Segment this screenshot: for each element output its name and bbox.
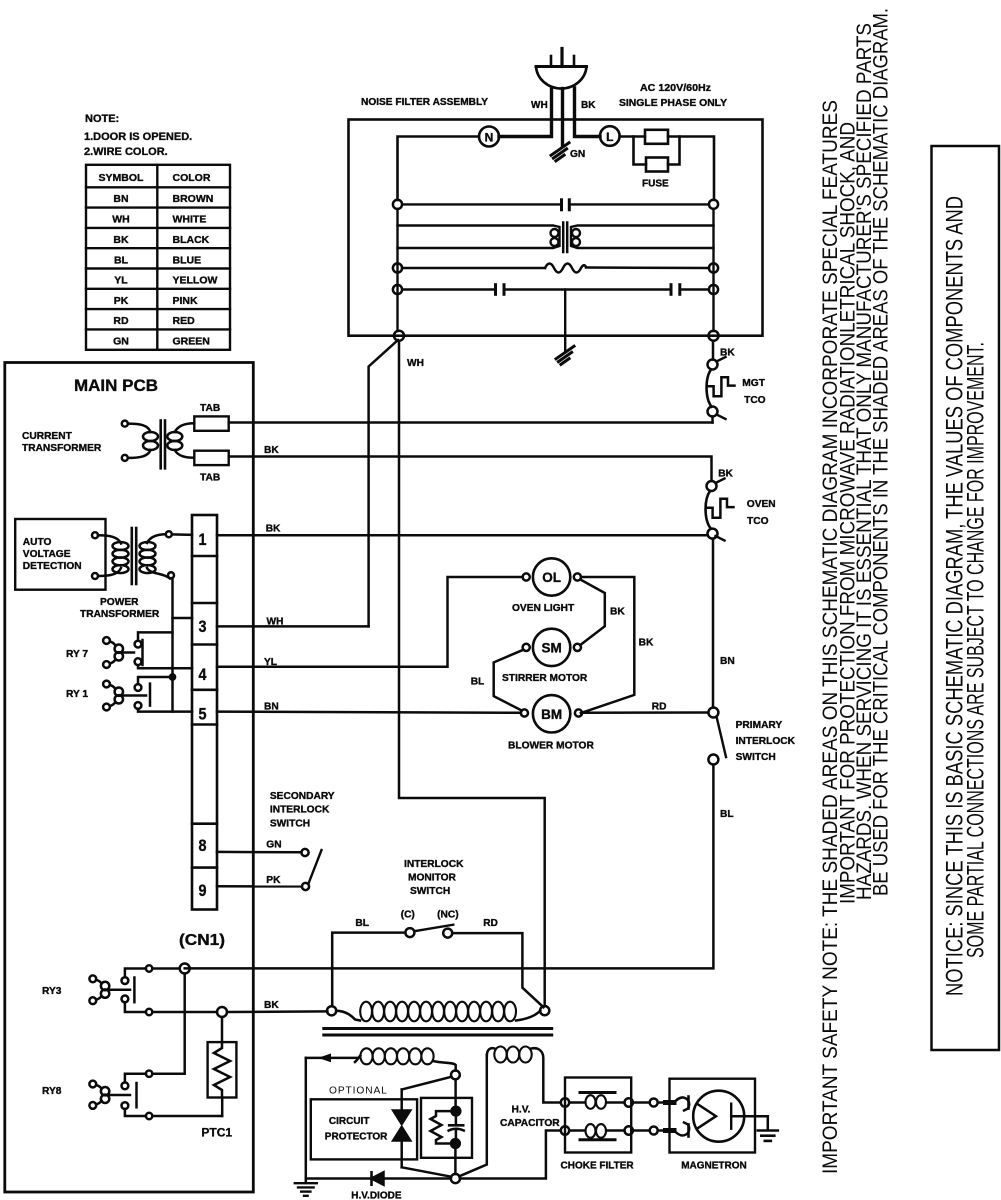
node choke bottom-right <box>625 1126 633 1134</box>
thermal cutout OVEN TCO <box>706 479 734 541</box>
svg-text:L: L <box>606 130 613 144</box>
node NF right row3 <box>709 263 718 272</box>
svg-text:(CN1): (CN1) <box>179 932 225 949</box>
ground GN hatched <box>551 143 569 161</box>
svg-text:BLOWER MOTOR: BLOWER MOTOR <box>508 741 594 752</box>
transformer T-current <box>122 421 195 469</box>
svg-text:TCO: TCO <box>747 516 769 527</box>
node A secondary to protector <box>451 1071 460 1080</box>
motor OL oven light <box>523 558 581 595</box>
arrow on secondary lead <box>318 1054 331 1063</box>
svg-text:VOLTAGE: VOLTAGE <box>23 549 71 560</box>
svg-text:3: 3 <box>199 617 207 636</box>
inductor filament winding 3 loops <box>494 1047 531 1063</box>
svg-text:BK: BK <box>266 524 281 535</box>
label PRIMARY INTERLOCK SWITCH <box>736 720 796 763</box>
switch monitor blade <box>414 925 453 932</box>
capacitor C-row4-left <box>402 285 669 295</box>
wire node A down to RC <box>454 1079 457 1107</box>
label SECONDARY INTERLOCK SWITCH <box>270 791 335 830</box>
box AUTO VOLTAGE DETECTION <box>15 519 105 590</box>
node HV primary left <box>327 1006 336 1015</box>
MAIN PCB box <box>5 363 254 1193</box>
inductor choke top <box>569 1093 624 1109</box>
wire pin5 row BN to blower <box>217 712 521 713</box>
label H.V. CAPACITOR <box>500 1105 560 1130</box>
wire OL right to BK bus <box>581 577 634 713</box>
wire color table frame <box>86 165 230 350</box>
wire pin3 row WH <box>217 625 369 628</box>
svg-text:OPTIONAL: OPTIONAL <box>329 1086 388 1097</box>
wire NF right vertical <box>712 209 714 331</box>
svg-text:AUTO: AUTO <box>23 537 52 548</box>
svg-text:RY 1: RY 1 <box>66 689 88 700</box>
svg-text:FUSE: FUSE <box>642 179 669 190</box>
wire TAB2 row to OVEN TCO <box>229 457 712 482</box>
wire ground-column left <box>305 1058 308 1183</box>
svg-text:9: 9 <box>199 881 207 900</box>
wire WH from plug <box>499 88 552 137</box>
svg-text:RED: RED <box>173 315 196 327</box>
box CIRCUIT PROTECTOR <box>311 1099 417 1159</box>
resistor in RC box <box>431 1111 453 1143</box>
svg-text:(C): (C) <box>401 910 415 921</box>
svg-text:SM: SM <box>541 640 561 655</box>
svg-text:N: N <box>485 131 494 145</box>
svg-text:SYMBOL: SYMBOL <box>99 172 145 184</box>
svg-text:YL: YL <box>264 657 277 668</box>
node B bottom rail <box>451 1174 460 1183</box>
svg-text:PROTECTOR: PROTECTOR <box>325 1132 388 1143</box>
ground below box hatched <box>556 346 574 364</box>
node NF right row2 <box>709 200 718 209</box>
svg-text:STIRRER MOTOR: STIRRER MOTOR <box>502 673 588 684</box>
svg-text:RY3: RY3 <box>42 986 62 997</box>
box RC snubber <box>421 1098 472 1158</box>
ground magnetron <box>758 1131 778 1141</box>
wire OL to SM BK <box>580 580 605 646</box>
switch primary interlock node <box>708 708 718 718</box>
svg-text:TAB: TAB <box>200 473 220 484</box>
svg-text:DETECTION: DETECTION <box>23 561 82 572</box>
svg-text:8: 8 <box>199 836 207 855</box>
svg-text:BK: BK <box>264 445 279 456</box>
relay RY1 <box>103 674 192 711</box>
terminal TAB lower <box>194 451 228 465</box>
svg-text:BLACK: BLACK <box>173 234 210 246</box>
box choke filter <box>565 1078 631 1153</box>
node NF left row4 <box>393 285 402 294</box>
svg-text:MAIN PCB: MAIN PCB <box>74 377 158 395</box>
label CIRCUIT PROTECTOR <box>325 1116 388 1143</box>
wire vertical to RY8 <box>152 974 184 1074</box>
label MGT TCO <box>742 378 765 406</box>
svg-text:NOISE FILTER ASSEMBLY: NOISE FILTER ASSEMBLY <box>361 97 488 108</box>
relay RY7 <box>103 632 192 668</box>
svg-text:H.V.: H.V. <box>512 1105 531 1116</box>
svg-text:INTERLOCK: INTERLOCK <box>736 736 796 747</box>
inductor choke L1 common mode <box>398 223 714 253</box>
svg-text:RD: RD <box>113 315 129 327</box>
label OVEN TCO <box>747 499 776 527</box>
svg-text:BK: BK <box>581 100 596 111</box>
svg-text:CURRENT: CURRENT <box>22 431 73 442</box>
svg-text:PTC1: PTC1 <box>201 1126 232 1140</box>
core HV transformer <box>324 1029 552 1036</box>
thermal cutout MGT TCO <box>707 357 735 423</box>
svg-text:SWITCH: SWITCH <box>736 752 776 763</box>
svg-text:RY 7: RY 7 <box>66 649 88 660</box>
svg-text:AC 120V/60Hz: AC 120V/60Hz <box>640 83 711 94</box>
fuse F1 <box>620 130 714 200</box>
motor BM blower <box>521 695 582 732</box>
notice box vertical text <box>942 196 990 996</box>
svg-text:OVEN: OVEN <box>747 499 776 510</box>
svg-text:MAGNETRON: MAGNETRON <box>681 1161 747 1172</box>
svg-text:GN: GN <box>570 149 585 160</box>
svg-text:BN: BN <box>720 656 735 667</box>
svg-text:BN: BN <box>113 193 128 205</box>
svg-text:CIRCUIT: CIRCUIT <box>329 1116 370 1127</box>
node NF left row2 <box>393 200 402 209</box>
wire HV cap left column <box>459 1055 487 1176</box>
node NF bottom left <box>394 331 404 341</box>
label AC 120V/60Hz single phase <box>619 83 727 109</box>
wire bottom rail right segment <box>460 1131 560 1179</box>
wire BK row to C-node <box>227 1010 327 1013</box>
wire top rail left of N <box>398 137 480 200</box>
terminal bottom feedthrough <box>650 1127 658 1135</box>
svg-text:BK: BK <box>264 1000 279 1011</box>
terminal TAB upper <box>194 416 228 430</box>
note heading text <box>84 113 192 158</box>
labels BL (C) (NC) RD monitor switch <box>355 910 498 930</box>
switch secondary interlock contact bottom and blade <box>302 883 309 890</box>
svg-text:5: 5 <box>199 705 207 724</box>
wire WH diagonal from NF left node <box>369 340 398 626</box>
node choke bottom-left <box>561 1126 569 1134</box>
wire MGT TCO top stub <box>712 341 715 360</box>
capacitor C-row4-right <box>671 285 680 295</box>
svg-text:1.DOOR IS OPENED.: 1.DOOR IS OPENED. <box>84 131 192 143</box>
switch monitor contact C <box>405 928 414 937</box>
notice box <box>932 146 1000 1050</box>
switch secondary interlock contact top <box>301 849 308 856</box>
wire NF node straight down <box>399 341 545 1007</box>
relay RY8 <box>89 1071 222 1120</box>
svg-text:NOTE:: NOTE: <box>85 113 119 125</box>
svg-text:RD: RD <box>652 702 667 713</box>
resistor PTC1 <box>208 1017 237 1116</box>
svg-text:H.V.DIODE: H.V.DIODE <box>351 1191 402 1200</box>
svg-text:BN: BN <box>264 702 279 713</box>
wire pin8 row GN <box>217 851 302 854</box>
svg-text:1: 1 <box>199 530 207 549</box>
diode H.V. DIODE <box>372 1172 451 1184</box>
inductor HV secondary coil <box>360 1048 433 1064</box>
svg-text:BK: BK <box>113 234 129 246</box>
svg-text:INTERLOCK: INTERLOCK <box>404 859 464 870</box>
svg-text:TRANSFORMER: TRANSFORMER <box>80 609 160 620</box>
svg-text:BL: BL <box>471 677 485 688</box>
motor SM stirrer <box>523 629 581 666</box>
svg-text:WHITE: WHITE <box>173 214 207 226</box>
wire HV secondary right lead <box>433 1061 456 1071</box>
svg-text:SWITCH: SWITCH <box>410 886 450 897</box>
node NF bottom right <box>709 331 719 341</box>
svg-text:BK: BK <box>718 469 733 480</box>
svg-text:MGT: MGT <box>742 378 765 389</box>
svg-text:SOME PARTIAL CONNECTIONS ARE S: SOME PARTIAL CONNECTIONS ARE SUBJECT TO … <box>962 342 989 958</box>
wire monitor switch C side <box>332 933 405 1007</box>
inductor wavy row3 <box>402 264 709 273</box>
AC plug P1 <box>536 49 587 89</box>
wire NF left vertical <box>396 209 398 331</box>
svg-text:WH: WH <box>267 616 284 627</box>
node BK row PTC junction <box>217 1007 227 1017</box>
wire row4 to right node <box>682 288 709 290</box>
svg-text:PINK: PINK <box>173 295 199 307</box>
label CURRENT TRANSFORMER <box>22 431 102 454</box>
svg-text:GN: GN <box>113 336 129 348</box>
svg-text:OL: OL <box>542 570 561 585</box>
svg-text:YELLOW: YELLOW <box>173 275 218 287</box>
node NF left row3 <box>393 263 402 272</box>
switch primary interlock lower contact <box>708 755 718 765</box>
box magnetron <box>670 1079 756 1153</box>
switch monitor contact NC <box>443 929 452 938</box>
wire BK from plug <box>575 88 601 137</box>
svg-text:GREEN: GREEN <box>173 336 210 348</box>
svg-text:WH: WH <box>531 100 548 111</box>
wire monitor switch NC side <box>452 933 543 1007</box>
svg-text:(NC): (NC) <box>437 910 459 921</box>
wire HV secondary left lead with arrow <box>306 1056 361 1063</box>
noise filter assembly box <box>349 120 763 336</box>
svg-text:BK: BK <box>639 638 654 649</box>
svg-text:WH: WH <box>407 358 424 369</box>
wire BM right RD row <box>582 711 708 714</box>
capacitor in RC box <box>449 1116 464 1140</box>
node NF right row4 <box>709 285 718 294</box>
svg-text:OVEN LIGHT: OVEN LIGHT <box>512 603 575 614</box>
magnetron filament hooks <box>674 1097 689 1137</box>
magnetron tube V1 <box>693 1091 744 1142</box>
capacitor C-row2 <box>402 200 709 210</box>
svg-text:TRANSFORMER: TRANSFORMER <box>22 443 102 454</box>
svg-text:SINGLE PHASE ONLY: SINGLE PHASE ONLY <box>619 98 727 109</box>
svg-text:SWITCH: SWITCH <box>270 819 310 830</box>
relay RY3 <box>89 965 217 1015</box>
svg-text:PRIMARY: PRIMARY <box>736 720 783 731</box>
wire choke to magnetron top <box>633 1101 650 1104</box>
svg-text:PK: PK <box>114 295 129 307</box>
svg-text:BROWN: BROWN <box>173 193 214 205</box>
svg-text:BLUE: BLUE <box>173 254 202 266</box>
wire bottom rail left segment <box>306 1177 372 1180</box>
wire color table text <box>99 172 218 348</box>
wire RC bottom to node B <box>454 1148 457 1174</box>
node RY3 top junction <box>180 964 190 974</box>
svg-text:COLOR: COLOR <box>173 172 211 184</box>
node choke top-left <box>561 1098 569 1106</box>
wire GN from plug <box>561 89 564 147</box>
svg-text:4: 4 <box>199 665 207 684</box>
svg-text:BL: BL <box>114 254 129 266</box>
ground bottom left <box>295 1183 317 1196</box>
svg-text:BM: BM <box>541 707 562 722</box>
svg-text:BL: BL <box>720 809 734 820</box>
svg-text:CAPACITOR: CAPACITOR <box>500 1118 560 1129</box>
connector pin numbers <box>199 530 207 900</box>
svg-text:MONITOR: MONITOR <box>408 873 457 884</box>
wire node A to protector diode <box>402 1077 452 1090</box>
label POWER TRANSFORMER <box>80 597 160 620</box>
wire filament winding leads <box>487 1048 561 1102</box>
wire pin4 row YL to oven light <box>217 577 523 667</box>
svg-text:RY8: RY8 <box>42 1086 62 1097</box>
svg-text:TAB: TAB <box>200 403 220 414</box>
wire TAB1 row to MGT TCO <box>229 421 713 424</box>
svg-text:RD: RD <box>483 918 498 929</box>
svg-text:BK: BK <box>610 607 625 618</box>
wire pin1 row BK <box>217 534 708 537</box>
junction dot RC top <box>452 1107 461 1116</box>
wire SM to BM BL <box>494 650 524 711</box>
transformer T-power <box>92 528 192 712</box>
svg-text:PK: PK <box>266 875 281 886</box>
wire pin9 row PK <box>217 885 302 888</box>
wire magnetron anode to ground <box>731 1116 768 1130</box>
svg-text:WH: WH <box>112 214 130 226</box>
svg-text:BL: BL <box>355 918 369 929</box>
svg-text:INTERLOCK: INTERLOCK <box>270 805 330 816</box>
node choke top-right <box>625 1098 633 1106</box>
junction dot RC bottom <box>451 1139 460 1148</box>
svg-text:POWER: POWER <box>100 597 139 608</box>
wire choke to magnetron bottom <box>633 1129 650 1132</box>
terminal top feedthrough <box>650 1099 658 1107</box>
switch primary interlock blade <box>717 717 727 758</box>
svg-text:CHOKE FILTER: CHOKE FILTER <box>561 1161 635 1172</box>
label INTERLOCK MONITOR SWITCH <box>404 859 464 897</box>
svg-text:2.WIRE COLOR.: 2.WIRE COLOR. <box>84 146 168 158</box>
svg-text:SECONDARY: SECONDARY <box>270 791 335 802</box>
diode protector bidirectional <box>393 1090 451 1177</box>
inductor choke bottom <box>569 1124 624 1140</box>
svg-text:GN: GN <box>266 840 281 851</box>
connector CN1 body <box>192 515 217 910</box>
svg-text:TCO: TCO <box>744 395 766 406</box>
wire pin3 row left <box>173 617 193 620</box>
terminal L <box>600 126 620 146</box>
svg-text:BK: BK <box>720 348 735 359</box>
safety note vertical text <box>818 8 893 1174</box>
wire OVEN TCO down to interlock node <box>712 539 715 708</box>
node HV primary right <box>540 1006 549 1015</box>
inductor HV transformer primary coil <box>336 1011 540 1021</box>
svg-text:YL: YL <box>114 275 128 287</box>
terminal N <box>479 127 499 147</box>
svg-text:BE USED FOR THE CRITICAL COMPO: BE USED FOR THE CRITICAL COMPONENTS IN T… <box>869 8 893 896</box>
wire BL from primary interlock <box>185 765 714 969</box>
wire center ground drop <box>564 290 566 353</box>
